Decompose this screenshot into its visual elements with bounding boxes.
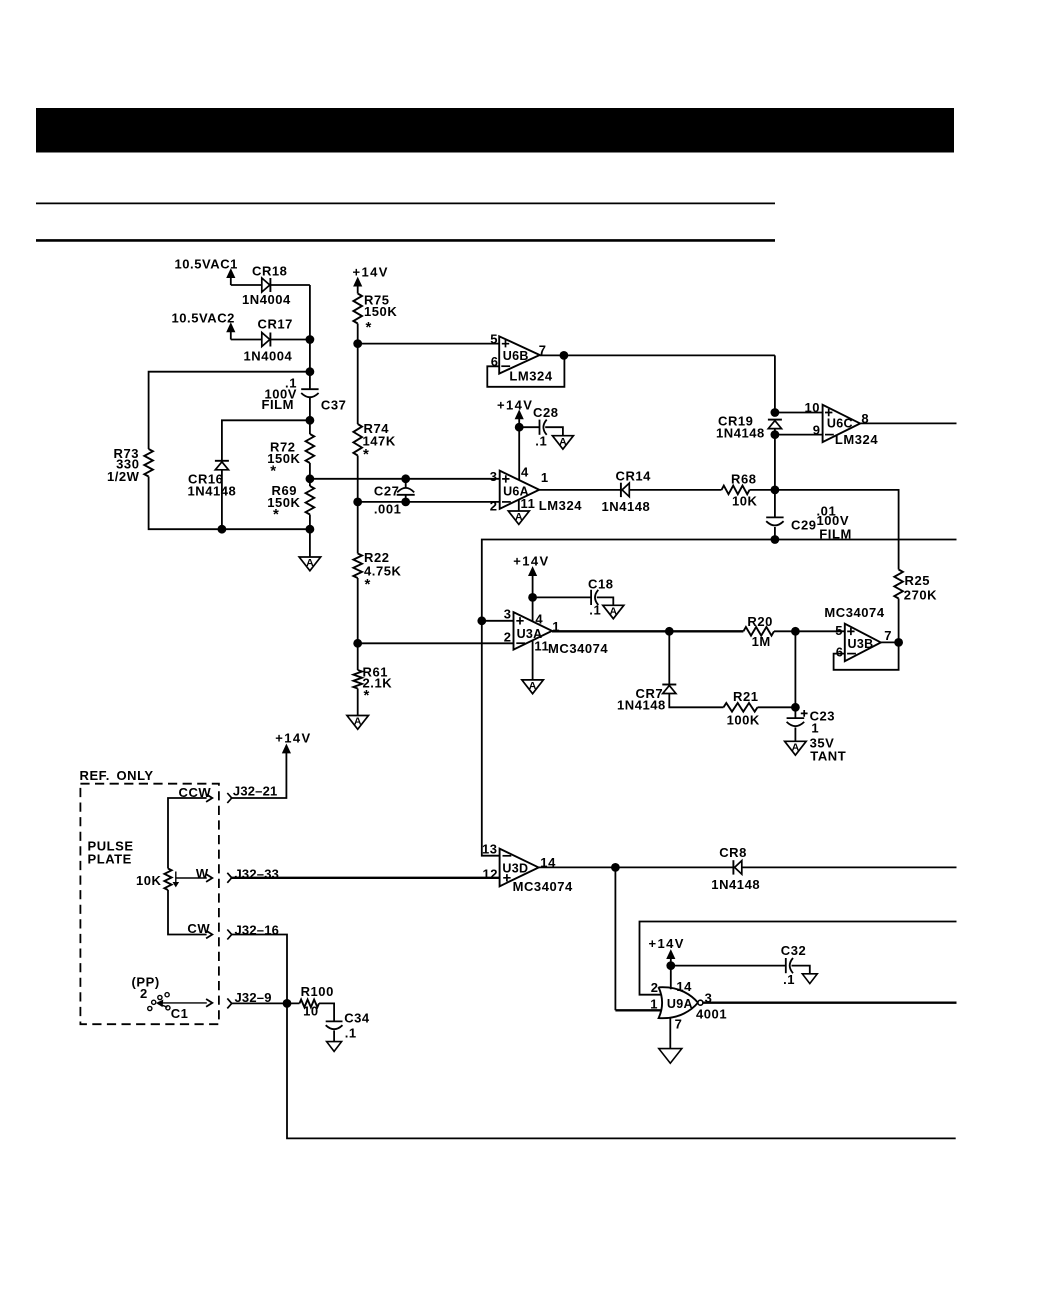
U3B feedback wire xyxy=(834,642,899,669)
wire pot top to CCW xyxy=(168,798,207,869)
svg-text:MC34074: MC34074 xyxy=(824,605,884,620)
svg-text:13: 13 xyxy=(482,841,498,856)
wire U9A pin7 stem xyxy=(669,1018,671,1049)
arrow CCW wire end xyxy=(206,794,212,802)
resistor R68 xyxy=(722,486,750,495)
svg-text:+14V: +14V xyxy=(649,936,685,951)
svg-text:2: 2 xyxy=(140,986,148,1001)
svg-text:R68: R68 xyxy=(731,471,757,486)
capacitor C27 stubs xyxy=(405,479,407,502)
arrow W wire end xyxy=(206,874,212,882)
op-amp U3A xyxy=(514,612,553,649)
wire R61 to ground xyxy=(357,689,359,716)
resistor R61 xyxy=(353,670,362,689)
svg-text:.1: .1 xyxy=(535,434,547,449)
svg-text:2: 2 xyxy=(651,980,659,995)
wire 10.5VAC1 to CR18 to node xyxy=(231,284,310,286)
node 10.5VAC2 arrow xyxy=(227,324,235,332)
svg-text:C37: C37 xyxy=(321,398,347,413)
svg-text:.1: .1 xyxy=(589,602,601,617)
switch C1 wiper arm xyxy=(158,1004,167,1008)
svg-text:*: * xyxy=(365,576,371,593)
potentiometer 10K body xyxy=(164,869,171,891)
wire +14V to U3A pin4 xyxy=(532,597,534,621)
ground C32 xyxy=(802,974,817,984)
svg-text:C32: C32 xyxy=(781,943,807,958)
op-amp U6B xyxy=(499,336,540,373)
wire to U6A pin 2 xyxy=(358,501,500,503)
junction dot R68 output xyxy=(771,486,780,495)
U3B plus input mark xyxy=(847,628,854,635)
connector J32-9 chevron xyxy=(227,998,231,1008)
svg-text:U3D: U3D xyxy=(502,861,528,875)
U6A plus input mark xyxy=(502,475,509,482)
U6A minus input mark xyxy=(502,501,511,503)
svg-text:1N4148: 1N4148 xyxy=(188,483,237,498)
resistor R75 xyxy=(353,294,362,324)
wire J32-9 to R100 xyxy=(232,1002,300,1004)
wire J32-21 to +14V xyxy=(232,752,287,798)
svg-text:1N4148: 1N4148 xyxy=(602,499,651,514)
wire U3D output down to U9A pin1 xyxy=(614,867,616,1010)
svg-text:ONLY: ONLY xyxy=(117,768,154,783)
resistor R100 xyxy=(300,1000,320,1008)
ground below R61 xyxy=(347,716,369,730)
wire CR19 to U6C pin10 xyxy=(775,412,823,414)
junction dot U6A pin2 tap xyxy=(353,498,362,507)
svg-text:1: 1 xyxy=(650,996,658,1011)
resistor R72 xyxy=(306,434,315,463)
svg-text:LM324: LM324 xyxy=(835,432,878,447)
svg-text:CR18: CR18 xyxy=(252,264,287,279)
svg-text:J32–16: J32–16 xyxy=(235,923,280,938)
wire U6B output down to CR19 xyxy=(774,355,776,412)
svg-text:C29: C29 xyxy=(791,517,817,532)
wire U6A output xyxy=(539,489,775,491)
junction dot R20 output xyxy=(791,627,800,636)
junction dot R73 tap xyxy=(306,367,315,376)
power +14V arrow top xyxy=(354,278,362,286)
wire R21 to C23 node xyxy=(758,706,796,708)
svg-text:LM324: LM324 xyxy=(539,498,582,513)
svg-text:U6C: U6C xyxy=(827,416,853,430)
op-amp U6C xyxy=(823,405,861,442)
svg-text:CCW: CCW xyxy=(179,785,212,800)
junction dot CR16 top tap xyxy=(306,416,315,425)
wire C29 to long wire xyxy=(774,527,776,540)
svg-text:3: 3 xyxy=(504,607,512,622)
junction dot bottom tap xyxy=(306,525,315,534)
junction dot U3A pin3 riser xyxy=(477,616,486,625)
svg-text:C18: C18 xyxy=(588,576,614,591)
svg-text:3: 3 xyxy=(490,469,498,484)
U6B plus input mark xyxy=(502,340,509,347)
U6C minus input mark xyxy=(825,434,834,436)
resistor R20 xyxy=(743,627,774,636)
svg-text:1N4148: 1N4148 xyxy=(716,425,765,440)
svg-text:CW: CW xyxy=(187,921,210,936)
wire R20 node down to C23 node xyxy=(794,631,796,707)
C23 plus mark xyxy=(801,710,808,717)
switch C1 wire arrow xyxy=(160,1002,207,1004)
ground U6A pin11 xyxy=(508,511,529,524)
junction dot U9A pin14 tap xyxy=(666,961,675,970)
U3A plus input mark xyxy=(516,617,523,624)
resistor R73 xyxy=(144,449,153,477)
wire node to U6A pin 3 xyxy=(310,478,500,480)
svg-text:10: 10 xyxy=(804,400,820,415)
U3D plus input mark xyxy=(503,874,510,881)
svg-text:5: 5 xyxy=(490,331,498,346)
wire to U3A pin 2 xyxy=(358,642,514,644)
diode CR16 xyxy=(215,461,229,470)
wire to C28 xyxy=(519,426,539,428)
svg-text:PLATE: PLATE xyxy=(88,852,132,867)
svg-text:1N4148: 1N4148 xyxy=(711,877,760,892)
junction dot U3A pin2 tap xyxy=(353,639,362,648)
wire CR19 bottom xyxy=(774,429,776,490)
wire R68 node down to C29 xyxy=(774,490,776,518)
svg-text:2: 2 xyxy=(490,498,498,513)
wire R25 to U3B output xyxy=(898,599,900,643)
wire +14V to C32 xyxy=(671,965,786,967)
ground U9A pin7 xyxy=(659,1049,682,1064)
svg-text:U3A: U3A xyxy=(517,627,543,641)
ground C28 xyxy=(552,436,573,449)
wire vertical node spine x310 xyxy=(309,285,311,557)
wire 10.5VAC2 to CR17 xyxy=(231,339,310,341)
svg-text:14: 14 xyxy=(676,979,692,994)
svg-text:+14V: +14V xyxy=(513,553,549,568)
svg-text:U6A: U6A xyxy=(503,484,529,498)
svg-text:1: 1 xyxy=(541,470,549,485)
ground C18 xyxy=(603,605,624,618)
capacitor C29 xyxy=(766,517,783,525)
svg-text:1N4004: 1N4004 xyxy=(242,292,291,307)
wire U3B output xyxy=(881,641,899,643)
wire U9A output to edge xyxy=(703,1002,957,1004)
wire long net to edge y539 xyxy=(482,540,957,856)
wire CR19 to U6C pin9 xyxy=(775,434,823,436)
wire U3A output xyxy=(552,630,743,632)
svg-text:R25: R25 xyxy=(905,573,931,588)
horizontal rule upper xyxy=(36,202,775,204)
NOR gate U9A xyxy=(659,987,698,1018)
junction dot J32-9 node xyxy=(283,999,292,1008)
wire U6B output xyxy=(540,354,775,356)
svg-text:A: A xyxy=(306,557,314,569)
svg-text:A: A xyxy=(610,606,618,618)
svg-text:A: A xyxy=(515,511,523,523)
connector J32-16 chevron xyxy=(227,930,231,940)
junction dot CR7 tap xyxy=(665,627,674,636)
svg-text:10: 10 xyxy=(303,1004,319,1019)
svg-text:*: * xyxy=(270,462,276,479)
junction dot C28 tap xyxy=(515,423,524,432)
op-amp U3B xyxy=(845,624,881,662)
svg-text:10.5VAC2: 10.5VAC2 xyxy=(172,311,235,326)
svg-text:*: * xyxy=(366,319,372,336)
capacitor C37 xyxy=(301,389,318,397)
svg-text:CR8: CR8 xyxy=(719,845,747,860)
junction dot U3D output xyxy=(611,863,620,872)
svg-text:10K: 10K xyxy=(136,873,162,888)
wire R22 to R61 xyxy=(357,578,359,670)
junction dot C23 node xyxy=(791,703,800,712)
wire down to CR7 xyxy=(668,631,670,684)
svg-text:1M: 1M xyxy=(752,634,771,649)
wire R20 to U3B pin5 xyxy=(774,630,845,632)
svg-text:C1: C1 xyxy=(171,1006,189,1021)
junction dot CR19 top xyxy=(771,408,780,417)
svg-text:J32–33: J32–33 xyxy=(235,866,280,881)
svg-text:10.5VAC1: 10.5VAC1 xyxy=(175,257,238,272)
junction dot C29 bottom xyxy=(771,535,780,544)
diode CR14 xyxy=(621,483,629,497)
junction dot C27 bottom xyxy=(401,498,410,507)
svg-text:7: 7 xyxy=(675,1017,683,1032)
diode CR8 xyxy=(733,860,741,874)
wire pot bottom to CW xyxy=(168,890,207,935)
switch C1 contacts xyxy=(148,993,170,1011)
potentiometer wiper arrow xyxy=(175,872,177,884)
svg-text:*: * xyxy=(273,506,279,523)
op-amp U6A xyxy=(500,471,540,509)
wire C28 to ground xyxy=(545,427,563,436)
junction dot CR16 bottom xyxy=(218,525,227,534)
svg-text:C28: C28 xyxy=(533,405,559,420)
svg-text:A: A xyxy=(792,742,800,754)
svg-text:A: A xyxy=(354,716,362,728)
wire U9A box top to edge xyxy=(640,922,957,995)
wire C23 to ground xyxy=(794,728,796,742)
U6C plus input mark xyxy=(825,409,832,416)
svg-text:1/2W: 1/2W xyxy=(107,469,140,484)
svg-text:7: 7 xyxy=(884,628,892,643)
diode CR17 xyxy=(262,333,271,347)
svg-text:*: * xyxy=(363,446,369,463)
ground U3A pin11 xyxy=(522,680,544,694)
svg-text:6: 6 xyxy=(836,644,844,659)
wire C32 to ground xyxy=(792,966,810,974)
svg-text:U3B: U3B xyxy=(848,637,874,651)
wire R68 node to R25 xyxy=(775,490,899,570)
wire wiper to W arrow xyxy=(176,877,207,879)
op-amp U3D xyxy=(500,849,539,887)
svg-text:10K: 10K xyxy=(732,493,758,508)
wire C34 to ground xyxy=(333,1030,335,1041)
resistor R25 xyxy=(894,570,903,599)
ground C23 xyxy=(785,741,807,755)
page header black title bar xyxy=(36,108,954,153)
svg-text:*: * xyxy=(364,687,370,704)
svg-text:REF.: REF. xyxy=(80,768,110,783)
svg-text:.1: .1 xyxy=(345,1026,357,1041)
junction dot CR19 bottom xyxy=(771,430,780,439)
wire U3D output to edge xyxy=(539,866,957,868)
junction dot U6A pin3 tap xyxy=(306,474,315,483)
ground below spine xyxy=(299,557,321,571)
resistor R22 xyxy=(353,554,362,579)
svg-text:.001: .001 xyxy=(374,502,402,517)
svg-text:5: 5 xyxy=(835,623,843,638)
wire C18 to ground xyxy=(597,597,614,605)
svg-text:C27: C27 xyxy=(374,483,400,498)
svg-text:R21: R21 xyxy=(733,689,759,704)
connector J32-21 chevron xyxy=(227,793,231,803)
wire +14V to U6A pin4 xyxy=(518,427,520,480)
svg-text:4: 4 xyxy=(535,612,543,627)
wire riser to U3A pin3 xyxy=(482,620,514,622)
svg-text:1N4004: 1N4004 xyxy=(244,349,293,364)
svg-text:1N4148: 1N4148 xyxy=(617,698,666,713)
svg-text:150K: 150K xyxy=(364,304,397,319)
svg-text:MC34074: MC34074 xyxy=(513,879,573,894)
svg-text:2: 2 xyxy=(504,629,512,644)
svg-text:FILM: FILM xyxy=(261,397,294,412)
wire J32-33 to U3D pin12 xyxy=(232,877,500,879)
svg-text:LM324: LM324 xyxy=(509,369,552,384)
svg-text:100K: 100K xyxy=(727,713,760,728)
U6B feedback wire pin6 xyxy=(487,355,564,386)
diode CR18 xyxy=(262,278,271,292)
svg-text:A: A xyxy=(559,436,567,448)
svg-text:MC34074: MC34074 xyxy=(548,641,608,656)
power +14V arrow C28 xyxy=(515,411,523,419)
svg-text:4001: 4001 xyxy=(696,1006,727,1021)
U9A output bubble xyxy=(698,1000,703,1005)
junction dot U6B output xyxy=(560,351,569,360)
capacitor C28 xyxy=(540,420,547,435)
wire into U9A pin1 xyxy=(615,1009,661,1011)
wire R73 bottom to spine xyxy=(149,477,310,530)
wire U3A +14V to C18 xyxy=(533,596,592,598)
wire U6C output to edge xyxy=(860,422,956,424)
power +14V arrow U9A xyxy=(667,950,675,958)
junction dot U6B pin5 tap xyxy=(353,339,362,348)
svg-text:C34: C34 xyxy=(344,1010,370,1025)
svg-text:J32–21: J32–21 xyxy=(233,784,278,799)
svg-text:CR14: CR14 xyxy=(616,468,652,483)
wire pin11 to ground xyxy=(532,640,534,680)
resistor R21 xyxy=(724,703,758,712)
U3A minus input mark xyxy=(516,642,525,644)
junction dot U3B output xyxy=(894,638,903,647)
wire R74 to R22 xyxy=(357,456,359,554)
wire R100 to C34 xyxy=(319,1003,334,1021)
svg-text:R100: R100 xyxy=(301,984,334,999)
diode CR7 xyxy=(662,685,676,694)
capacitor C23 polarized xyxy=(794,707,796,718)
wire pin14 stem xyxy=(670,966,672,990)
wire CR7 to R21 xyxy=(669,694,723,708)
junction dot CR17 node xyxy=(306,335,315,344)
wire node to R73 xyxy=(149,372,310,449)
capacitor C34 xyxy=(326,1021,343,1029)
svg-text:12: 12 xyxy=(482,867,498,882)
junction dot C27 top xyxy=(401,474,410,483)
ground C34 xyxy=(327,1042,342,1052)
wire R75 to R74 xyxy=(357,324,359,425)
resistor R69 xyxy=(306,486,315,515)
wire CR16 to bottom wire xyxy=(221,470,223,529)
svg-text:W: W xyxy=(196,866,209,881)
svg-text:CR17: CR17 xyxy=(258,317,293,332)
dashed box REF ONLY xyxy=(80,784,219,1024)
wire node to CR16 xyxy=(222,420,310,460)
arrow CW wire end xyxy=(206,931,212,939)
power +14V arrow J32-21 xyxy=(283,745,291,753)
connector J32-33 chevron xyxy=(227,873,231,883)
U3D minus input mark xyxy=(503,855,512,857)
diode CR19 xyxy=(768,420,782,429)
U6B minus input mark xyxy=(501,365,510,367)
svg-text:9: 9 xyxy=(813,423,821,438)
svg-text:+14V: +14V xyxy=(275,731,311,746)
resistor R74 xyxy=(353,424,362,456)
capacitor C27 plates xyxy=(397,488,414,493)
capacitor C32 xyxy=(786,958,793,973)
svg-text:4: 4 xyxy=(521,465,529,480)
svg-text:U6B: U6B xyxy=(503,349,529,363)
svg-text:1: 1 xyxy=(811,720,819,735)
svg-text:TANT: TANT xyxy=(810,748,846,763)
junction dot U3A pin4 tap xyxy=(528,593,537,602)
wire to U6B pin 5 xyxy=(358,343,500,345)
capacitor C18 xyxy=(591,590,598,605)
node 10.5VAC1 arrow xyxy=(227,269,235,277)
U3B minus input mark xyxy=(847,653,856,655)
svg-text:R20: R20 xyxy=(747,614,773,629)
horizontal rule lower xyxy=(36,239,775,242)
wire J32-16 down to J32-9 node xyxy=(232,935,287,1004)
svg-text:U9A: U9A xyxy=(667,997,693,1011)
svg-text:.1: .1 xyxy=(783,972,795,987)
svg-text:270K: 270K xyxy=(904,588,937,603)
wire J32-9 node to bottom edge xyxy=(287,1003,956,1138)
svg-text:+14V: +14V xyxy=(497,397,533,412)
svg-text:A: A xyxy=(529,680,537,692)
power +14V arrow U3A xyxy=(529,567,537,575)
